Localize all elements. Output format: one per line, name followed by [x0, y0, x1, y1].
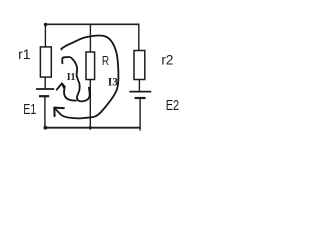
wire R to bottom rail	[89, 80, 91, 130]
resistor r2	[134, 51, 145, 80]
node top-left junction dot	[44, 23, 48, 27]
svg-text:I3: I3	[108, 77, 119, 89]
svg-text:I1: I1	[67, 71, 76, 83]
wire bottom rail	[45, 127, 141, 129]
wire middle branch top	[89, 24, 91, 52]
svg-text:r1: r1	[18, 47, 30, 62]
svg-text:E1: E1	[23, 102, 36, 118]
resistor R	[86, 52, 95, 80]
wire right branch top	[138, 24, 140, 51]
resistor r1	[40, 47, 51, 77]
wire left branch top	[44, 24, 46, 47]
svg-text:r2: r2	[161, 52, 173, 68]
wire E2 to bottom rail	[139, 98, 141, 131]
wire r1 to E1	[44, 77, 46, 89]
svg-text:E2: E2	[166, 98, 179, 114]
loop arrow I3 arrowhead	[54, 107, 64, 110]
node bottom-middle junction dot	[89, 126, 92, 129]
loop arrow I3 body (freehand)	[55, 36, 119, 119]
loop arrow I1 body (freehand)	[62, 57, 89, 101]
node bottom-left junction dot	[44, 126, 48, 130]
battery E1 short plate	[39, 95, 49, 97]
battery E2 long plate	[129, 91, 151, 93]
battery E1 long plate	[36, 88, 54, 90]
wire r2 to E2	[138, 80, 140, 92]
battery E2 short plate	[135, 97, 146, 99]
loop arrow I1 shaft	[62, 84, 76, 101]
loop arrow I1 arrowhead	[57, 83, 65, 89]
wire top rail	[45, 23, 139, 25]
wire E1 to bottom rail	[44, 96, 46, 128]
svg-text:R: R	[102, 54, 109, 68]
